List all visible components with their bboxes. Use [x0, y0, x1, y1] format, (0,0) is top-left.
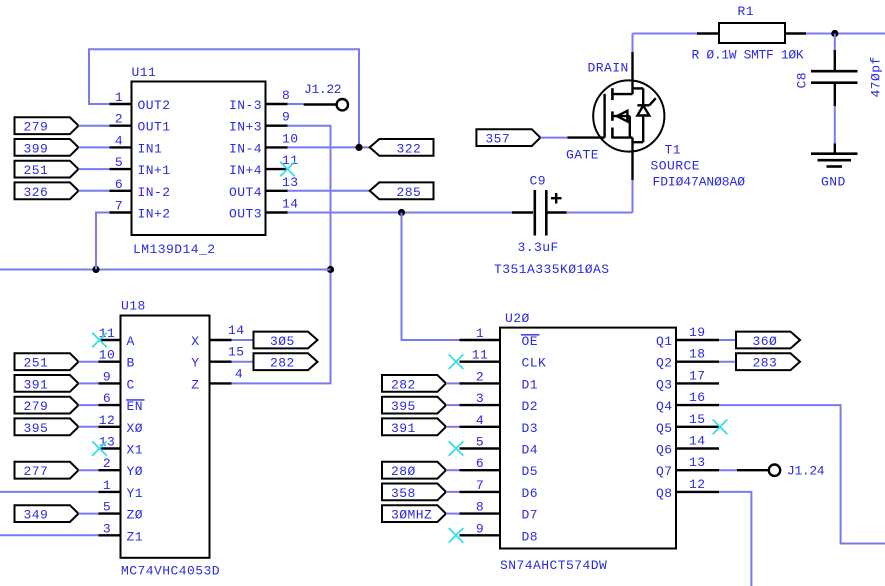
svg-text:D7: D7	[522, 508, 539, 523]
svg-text:13: 13	[282, 175, 299, 190]
svg-text:5: 5	[115, 155, 123, 170]
wire R1 to right edge	[806, 33, 885, 35]
svg-text:349: 349	[24, 508, 49, 523]
net flag 285	[370, 182, 434, 199]
svg-text:6: 6	[115, 177, 123, 192]
svg-text:Q4: Q4	[656, 399, 673, 414]
svg-text:3: 3	[476, 391, 484, 406]
C9 value 3.3uF	[518, 240, 559, 255]
svg-text:D1: D1	[522, 377, 539, 392]
wire U18 Z1 to left edge	[0, 534, 99, 536]
svg-text:1: 1	[115, 90, 123, 105]
U20 pin 13 (Q7) stub	[656, 455, 719, 479]
U18 pin 4 (Z) stub	[191, 366, 243, 392]
net flag 358 (U20 left)	[382, 484, 446, 501]
svg-text:ZØ: ZØ	[127, 508, 144, 523]
no-connect X on U20 pin 5 (D4)	[449, 441, 464, 456]
junction node bus/IN+3	[327, 266, 334, 273]
wire OUT3 down to U20 OE	[402, 213, 460, 341]
svg-text:279: 279	[24, 399, 49, 414]
U18 pin 9 (C) stub	[99, 369, 135, 392]
svg-text:OUT2: OUT2	[138, 98, 171, 113]
svg-text:11: 11	[472, 348, 489, 363]
svg-text:3Ø5: 3Ø5	[270, 334, 295, 349]
svg-text:7: 7	[115, 199, 123, 214]
wire flag 279 to U11	[79, 125, 110, 127]
no-connect X on U20 pin 11 (CLK)	[449, 354, 464, 369]
wire U18 Y1 to left edge	[0, 491, 99, 493]
U11 pin 6 (IN-2) stub	[110, 177, 171, 200]
svg-text:6: 6	[103, 391, 111, 406]
wire flag 395 to U20	[446, 404, 460, 406]
svg-text:R Ø.1W SMTF 1ØK: R Ø.1W SMTF 1ØK	[692, 48, 804, 63]
ground symbol GND	[811, 144, 858, 167]
op-amp comparator IC U11	[132, 65, 266, 235]
wire U20 Q2 to flag 283	[719, 361, 736, 363]
U11 pin 4 (IN1) stub	[110, 133, 163, 156]
wire flag 280 to U20	[446, 469, 460, 471]
net flag 391 (U18 left)	[15, 375, 79, 392]
svg-text:D5: D5	[522, 464, 539, 479]
net flag 322	[370, 139, 434, 156]
U20 pin 16 (Q4) stub	[656, 390, 719, 414]
U11 pin 1 (OUT2) stub	[110, 90, 171, 113]
net flag 395 (U18 left)	[15, 418, 79, 435]
svg-text:YØ: YØ	[127, 464, 144, 479]
GND net label	[821, 175, 846, 190]
svg-text:399: 399	[24, 141, 49, 156]
wire net OUT3 to C9 and T1 source	[288, 180, 633, 213]
U18 pin 10 (B) stub	[99, 348, 135, 371]
connector J1.22	[304, 82, 348, 110]
svg-text:Q8: Q8	[656, 486, 673, 501]
wire flag 251 to U11	[79, 168, 110, 170]
U20 pin 8 (D7) stub	[460, 500, 539, 523]
U11 value LM139D14_2	[133, 242, 216, 257]
svg-text:IN-4: IN-4	[229, 141, 262, 156]
svg-text:LM139D14_2: LM139D14_2	[133, 242, 216, 257]
wire flag 282 to U20	[446, 382, 460, 384]
svg-text:9: 9	[103, 369, 111, 384]
svg-text:14: 14	[689, 434, 706, 449]
no-connect X on U20 pin 9 (D8)	[449, 528, 464, 543]
wire flag 399 to U11	[79, 146, 110, 148]
svg-text:9: 9	[282, 110, 290, 125]
svg-text:326: 326	[24, 185, 49, 200]
svg-text:6: 6	[476, 456, 484, 471]
svg-text:10: 10	[99, 348, 116, 363]
no-connect X on U20 pin 15 (Q5)	[713, 420, 728, 435]
svg-text:J1.24: J1.24	[787, 464, 825, 479]
svg-text:2: 2	[103, 456, 111, 471]
svg-text:U11: U11	[132, 65, 157, 80]
wire U18 X to flag 305	[232, 339, 254, 341]
wire flag 358 to U20	[446, 491, 460, 493]
svg-text:12: 12	[99, 413, 116, 428]
wire net OUT2 feedback loop to IN-4/322	[89, 49, 359, 147]
wire OUT4 to flag 285	[288, 190, 370, 192]
U18 pin 15 (Y) stub	[191, 345, 244, 371]
transistor T1 N-MOSFET	[568, 52, 665, 180]
wire U20 Q1 to flag 360	[719, 339, 736, 341]
wire U20 Q7 to connector J1.24	[719, 469, 737, 471]
svg-text:X1: X1	[127, 443, 144, 458]
net flag 30MHZ (U20 left)	[382, 505, 446, 522]
svg-text:7: 7	[476, 478, 484, 493]
C8 value 470pf (rotated)	[869, 56, 884, 97]
U11 pin 14 (OUT3) stub	[229, 197, 299, 222]
svg-text:1: 1	[476, 326, 484, 341]
net flag 251 (U18 left)	[15, 353, 79, 370]
C9 part number T351A335K010AS	[494, 262, 610, 277]
U20 pin 12 (Q8) stub	[656, 477, 719, 501]
svg-text:Q7: Q7	[656, 464, 673, 479]
svg-text:R1: R1	[738, 4, 755, 19]
U20 pin 5 (D4) stub	[460, 435, 539, 458]
U11 pin 9 (IN+3) stub	[229, 110, 290, 135]
C8 reference label (rotated)	[795, 72, 810, 89]
svg-text:OUT3: OUT3	[229, 207, 262, 222]
svg-text:OUT4: OUT4	[229, 185, 262, 200]
U18 value MC74VHC4053D	[121, 564, 220, 579]
net flag 349 (U18 left)	[15, 505, 79, 522]
T1 pin label SOURCE	[651, 159, 701, 174]
wire flag 391 to U20	[446, 426, 460, 428]
svg-text:B: B	[127, 356, 135, 371]
T1 part number FDI047AN08A0	[653, 175, 746, 190]
U20 pin 17 (Q3) stub	[656, 368, 719, 392]
svg-text:D3: D3	[522, 421, 539, 436]
net flag 283	[736, 353, 800, 370]
svg-text:Z1: Z1	[127, 529, 144, 544]
svg-text:IN-2: IN-2	[138, 185, 171, 200]
wire net IN+3 / U18 Z vertical	[232, 126, 331, 384]
svg-text:C: C	[127, 377, 135, 392]
wire IN-3 to connector J1.22	[288, 103, 304, 105]
svg-text:285: 285	[397, 185, 422, 200]
svg-text:277: 277	[24, 464, 49, 479]
net flag 399 (U11 left)	[15, 139, 79, 156]
octal flip-flop IC U20	[500, 311, 676, 549]
svg-text:Q5: Q5	[656, 421, 673, 436]
svg-text:XØ: XØ	[127, 421, 144, 436]
U20 pin 3 (D2) stub	[460, 391, 539, 414]
wire C8 top	[834, 34, 836, 51]
wire flag 279 to U18	[79, 404, 99, 406]
svg-text:391: 391	[24, 377, 49, 392]
wire flag 391 to U18	[79, 382, 99, 384]
svg-text:IN+3: IN+3	[229, 120, 262, 135]
svg-text:4: 4	[235, 366, 243, 381]
analog multiplexer IC U18	[121, 299, 210, 558]
U20 pin 18 (Q2) stub	[656, 347, 719, 371]
svg-text:17: 17	[689, 368, 706, 383]
U18 pin 13 (X1) stub	[99, 435, 144, 458]
svg-text:J1.22: J1.22	[304, 82, 341, 97]
svg-text:Y: Y	[191, 356, 199, 371]
svg-text:2: 2	[115, 112, 123, 127]
wire flag 326 to U11	[79, 190, 110, 192]
svg-text:T351A335KØ1ØAS: T351A335KØ1ØAS	[494, 262, 610, 277]
svg-text:4: 4	[115, 133, 123, 148]
no-connect X on U18 pin 13 (X1)	[92, 441, 107, 456]
capacitor C9 (polarized)	[512, 174, 567, 236]
svg-text:CLK: CLK	[522, 356, 547, 371]
svg-text:14: 14	[282, 197, 299, 212]
svg-text:15: 15	[228, 345, 245, 360]
svg-text:Q2: Q2	[656, 356, 673, 371]
svg-text:SN74AHCT574DW: SN74AHCT574DW	[500, 558, 607, 573]
svg-text:5: 5	[476, 435, 484, 450]
svg-text:36Ø: 36Ø	[753, 334, 778, 349]
svg-text:282: 282	[270, 356, 295, 371]
U18 pin 11 (A) stub	[99, 326, 135, 349]
wire T1 drain up to R1	[633, 34, 698, 53]
svg-text:395: 395	[391, 399, 416, 414]
svg-text:X: X	[191, 334, 199, 349]
net flag 279 (U11 left)	[15, 117, 79, 134]
svg-text:2: 2	[476, 369, 484, 384]
U18 pin 14 (X) stub	[191, 323, 244, 349]
svg-text:U2Ø: U2Ø	[505, 311, 530, 326]
U11 pin 7 (IN+2) stub	[110, 199, 171, 222]
wire horizontal bus y=269	[0, 269, 331, 271]
svg-text:D4: D4	[522, 443, 539, 458]
net flag 279 (U18 left)	[15, 397, 79, 414]
wire flag 349 to U18	[79, 513, 99, 515]
U11 pin 8 (IN-3) stub	[229, 88, 290, 113]
U20 pin 1 (OE) stub	[460, 326, 540, 349]
net flag 282	[254, 353, 318, 370]
svg-text:18: 18	[689, 347, 706, 362]
U20 pin 14 (Q6) stub	[656, 434, 719, 458]
U11 pin 10 (IN-4) stub	[229, 131, 299, 156]
svg-text:15: 15	[689, 412, 706, 427]
T1 pin label DRAIN	[588, 61, 629, 76]
svg-text:IN+1: IN+1	[138, 163, 171, 178]
svg-text:12: 12	[689, 477, 706, 492]
svg-text:5: 5	[103, 500, 111, 515]
U20 pin 6 (D5) stub	[460, 456, 539, 479]
svg-text:10: 10	[282, 131, 299, 146]
svg-text:FDIØ47ANØ8AØ: FDIØ47ANØ8AØ	[653, 175, 746, 190]
svg-text:IN1: IN1	[138, 141, 163, 156]
net flag 357 (gate)	[476, 129, 540, 146]
T1 reference designator	[665, 143, 682, 158]
junction node bus/IN+2	[92, 266, 99, 273]
net flag 282 (U20 left)	[382, 375, 446, 392]
resistor R1	[697, 4, 806, 43]
junction node R1/C8	[831, 30, 838, 37]
net flag 251 (U11 left)	[15, 161, 79, 178]
connector J1.24	[737, 464, 825, 479]
U18 pin 3 (Z1) stub	[99, 521, 144, 544]
no-connect X on U18 pin 11 (A)	[92, 333, 107, 348]
svg-text:279: 279	[24, 120, 49, 135]
U20 pin 15 (Q5) stub	[656, 412, 719, 436]
net flag 395 (U20 left)	[382, 397, 446, 414]
svg-text:IN+2: IN+2	[138, 207, 171, 222]
capacitor C8	[811, 50, 858, 106]
svg-text:8: 8	[476, 500, 484, 515]
net flag 280 (U20 left)	[382, 462, 446, 479]
wire U18 Y to flag 282	[232, 361, 254, 363]
wire flag 251 to U18	[79, 361, 99, 363]
wire flag 30MHZ to U20	[446, 513, 460, 515]
wire flag 357 to T1 gate	[540, 137, 567, 139]
T1 pin label GATE	[566, 148, 599, 163]
svg-text:16: 16	[689, 390, 706, 405]
svg-text:Z: Z	[191, 377, 199, 392]
U11 pin 2 (OUT1) stub	[110, 112, 171, 135]
svg-text:322: 322	[397, 141, 422, 156]
svg-text:391: 391	[391, 421, 416, 436]
wire IN-4 to flag 322	[288, 146, 371, 148]
svg-text:3.3uF: 3.3uF	[518, 240, 559, 255]
svg-text:T1: T1	[665, 143, 682, 158]
junction node OUT2/IN-4/322	[355, 144, 362, 151]
svg-text:GND: GND	[821, 175, 846, 190]
svg-text:Y1: Y1	[127, 486, 144, 501]
U20 pin 2 (D1) stub	[460, 369, 539, 392]
junction node OUT3/OE	[398, 209, 405, 216]
U20 pin 19 (Q1) stub	[656, 325, 719, 349]
net flag 305	[254, 332, 318, 349]
svg-text:14: 14	[228, 323, 245, 338]
svg-text:D6: D6	[522, 486, 539, 501]
svg-text:U18: U18	[121, 299, 146, 314]
svg-text:251: 251	[24, 356, 49, 371]
wire IN+2 drop to bus	[96, 213, 110, 270]
wire U20 Q8 to bottom edge	[719, 492, 751, 586]
svg-text:D8: D8	[522, 529, 539, 544]
svg-text:3ØMHZ: 3ØMHZ	[391, 508, 432, 523]
svg-text:283: 283	[753, 356, 778, 371]
svg-text:251: 251	[24, 163, 49, 178]
svg-text:EN: EN	[127, 399, 144, 414]
U18 pin 5 (Z0) stub	[99, 500, 144, 523]
svg-text:28Ø: 28Ø	[391, 464, 416, 479]
svg-text:DRAIN: DRAIN	[588, 61, 629, 76]
svg-text:282: 282	[391, 377, 416, 392]
svg-text:357: 357	[485, 132, 510, 147]
U18 pin 2 (Y0) stub	[99, 456, 144, 479]
U20 pin 9 (D8) stub	[460, 521, 539, 544]
svg-text:395: 395	[24, 421, 49, 436]
U18 pin 12 (X0) stub	[99, 413, 144, 436]
R1 value R 0.1W SMTF 10K	[692, 48, 804, 63]
svg-text:A: A	[127, 334, 135, 349]
svg-text:SOURCE: SOURCE	[651, 159, 701, 174]
net flag 391 (U20 left)	[382, 418, 446, 435]
no-connect X on U11 pin 11 (IN+4)	[280, 162, 295, 177]
svg-text:3: 3	[103, 521, 111, 536]
svg-text:OUT1: OUT1	[138, 120, 171, 135]
wire C8 to GND	[834, 106, 836, 144]
svg-text:OE: OE	[522, 334, 539, 349]
svg-text:C9: C9	[530, 174, 547, 189]
wire flag 395 to U18	[79, 426, 99, 428]
U20 pin 4 (D3) stub	[460, 413, 539, 436]
svg-text:IN-3: IN-3	[229, 98, 262, 113]
svg-text:47Øpf: 47Øpf	[869, 56, 884, 97]
svg-text:9: 9	[476, 521, 484, 536]
net flag 277 (U18 left)	[15, 462, 79, 479]
wire flag 277 to U18	[79, 469, 99, 471]
U20 pin 7 (D6) stub	[460, 478, 539, 501]
svg-text:MC74VHC4053D: MC74VHC4053D	[121, 564, 220, 579]
U11 pin 13 (OUT4) stub	[229, 175, 299, 200]
svg-text:1: 1	[103, 478, 111, 493]
svg-text:Q1: Q1	[656, 334, 673, 349]
svg-text:4: 4	[476, 413, 484, 428]
svg-text:358: 358	[391, 486, 416, 501]
net flag 360	[736, 332, 800, 349]
U11 pin 11 (IN+4) stub	[229, 153, 299, 178]
U11 pin 5 (IN+1) stub	[110, 155, 171, 178]
svg-text:GATE: GATE	[566, 148, 599, 163]
svg-text:D2: D2	[522, 399, 539, 414]
svg-text:19: 19	[689, 325, 706, 340]
U18 pin 6 (EN) stub	[99, 391, 145, 414]
wire U20 Q4 to bottom right edge	[719, 405, 885, 543]
svg-text:IN+4: IN+4	[229, 163, 262, 178]
svg-text:C8: C8	[795, 72, 810, 89]
U18 pin 1 (Y1) stub	[99, 478, 144, 501]
U20 value SN74AHCT574DW	[500, 558, 607, 573]
svg-text:8: 8	[282, 88, 290, 103]
svg-text:Q6: Q6	[656, 443, 673, 458]
net flag 326 (U11 left)	[15, 182, 79, 199]
U20 pin 11 (CLK) stub	[460, 348, 547, 371]
svg-text:Q3: Q3	[656, 377, 673, 392]
svg-text:13: 13	[689, 455, 706, 470]
